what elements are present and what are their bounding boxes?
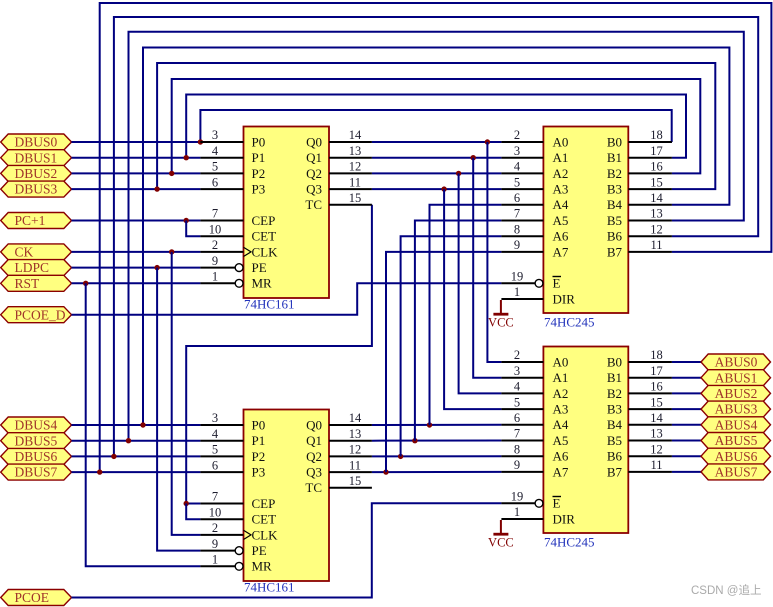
pin 18 B0 of 74HC245 #1 (upper) [607,128,672,149]
svg-text:ABUS1: ABUS1 [715,370,758,385]
svg-text:CLK: CLK [252,244,279,259]
junction DBUS6/B6 [111,454,116,459]
svg-text:MR: MR [252,276,273,291]
svg-text:CLK: CLK [252,527,279,542]
pin 4 A2 of 74HC245 #2 (lower) [501,380,568,401]
wire CK to CLK of 74HC161#2 [172,252,201,535]
wire CK to CLK [72,251,201,253]
svg-text:A4: A4 [553,197,569,212]
pin 5 P2 of 74HC161 #2 (lower) [200,443,265,464]
pin 12 B6 of 74HC245 #2 (lower) [607,442,672,463]
wire B5 feedback loop (74HC245#1 B5 to DBUS5) [129,32,744,441]
svg-text:14: 14 [349,128,362,142]
svg-text:PC+1: PC+1 [15,213,46,228]
pin 15 TC of 74HC161 #2 (lower) [305,474,372,495]
pin 18 B0 of 74HC245 #2 (lower) [607,348,672,369]
junction RST branch [83,281,88,286]
junction CK branch [169,249,174,254]
svg-text:P3: P3 [252,182,266,197]
power symbol VCC on DIR of 74HC245 #1 (upper) [488,300,514,330]
svg-text:A6: A6 [553,229,569,244]
pin 13 B5 of 74HC245 #1 (upper) [607,207,672,228]
pin 2 A0 of 74HC245 #1 (upper) [501,128,568,149]
svg-text:12: 12 [650,442,663,456]
svg-text:7: 7 [514,427,520,441]
pin 2 CLK of 74HC161 #2 (lower) [200,521,278,542]
svg-text:A0: A0 [553,134,569,149]
pin 9 A7 of 74HC245 #1 (upper) [501,238,568,259]
wire B0#2 to ABUS0 [672,361,701,363]
svg-text:A2: A2 [553,166,569,181]
svg-text:P0: P0 [252,417,266,432]
wire B7#2 to ABUS7 [672,471,701,473]
pin 6 P3 of 74HC161 #1 (upper) [200,175,265,196]
svg-text:4: 4 [514,380,521,394]
svg-text:74HC161: 74HC161 [244,297,295,312]
junction DBUS1/B1 [184,155,189,160]
svg-text:Q2: Q2 [306,166,322,181]
svg-text:B1: B1 [607,370,622,385]
pin 13 Q1 of 74HC161 #1 (upper) [306,144,372,165]
wire Q1#2 to A5 of 74HC245#1 [415,221,502,441]
pin 12 Q2 of 74HC161 #1 (upper) [306,160,372,181]
wire Q1#1 to A1 of 74HC245#1 [372,157,502,159]
svg-text:A6: A6 [553,449,569,464]
svg-text:B6: B6 [607,229,623,244]
svg-text:9: 9 [514,458,520,472]
pin 16 B2 of 74HC245 #1 (upper) [607,160,672,181]
port ABUS3 [701,401,771,417]
junction DBUS5/B5 [126,438,131,443]
svg-text:14: 14 [650,191,663,205]
svg-text:8: 8 [514,222,520,236]
svg-text:ABUS3: ABUS3 [715,402,758,417]
svg-text:3: 3 [212,411,218,425]
svg-text:2: 2 [514,348,520,362]
svg-text:11: 11 [349,175,361,189]
IC 74HC245 #2 (lower) body [543,347,628,534]
wire B6#2 to ABUS6 [672,455,701,457]
port PC+1 [1,213,72,229]
junction Q0#1/A0 branch [485,139,490,144]
wire DBUS3 to P3 [72,188,201,190]
wire Q2#2 to A6 of 74HC245#1 [401,236,502,456]
pin 4 A2 of 74HC245 #1 (upper) [501,160,568,181]
junction Q2#2/A6 branch [398,454,403,459]
svg-text:DBUS4: DBUS4 [15,418,58,433]
pin 14 Q0 of 74HC161 #2 (lower) [306,411,372,432]
svg-text:RST: RST [15,276,41,291]
svg-text:B0: B0 [607,134,622,149]
wire Q3#2 to A7 of 74HC245#2 [372,471,502,473]
svg-text:PE: PE [252,543,267,558]
svg-text:A7: A7 [553,464,569,479]
wire B1#2 to ABUS1 [672,377,701,379]
svg-text:B3: B3 [607,182,622,197]
wire PC+1 to CET [186,221,200,237]
pin 16 B2 of 74HC245 #2 (lower) [607,380,672,401]
svg-text:Q1: Q1 [306,150,322,165]
wire RST to MR of 74HC161#2 [86,283,201,566]
svg-text:18: 18 [650,128,663,142]
svg-text:DBUS3: DBUS3 [15,182,58,197]
svg-text:14: 14 [349,411,362,425]
pin 1 MR of 74HC161 #1 (upper) (active low) [200,270,272,291]
svg-text:9: 9 [514,238,520,252]
svg-text:TC: TC [305,197,322,212]
port PCOE_D [1,307,72,323]
svg-text:6: 6 [212,458,218,472]
svg-text:DBUS0: DBUS0 [15,135,58,150]
pin 11 B7 of 74HC245 #1 (upper) [607,238,672,259]
svg-text:CSDN @追上: CSDN @追上 [691,583,761,597]
pin 2 A0 of 74HC245 #2 (lower) [501,348,568,369]
svg-text:VCC: VCC [488,536,514,550]
wire DBUS2 to P2 [72,172,201,174]
wire Q3#1 to A3 of 74HC245#1 [372,188,502,190]
wire B2 feedback loop (74HC245#1 B2 to DBUS2) [172,79,701,173]
wire Q3#2 to A7 of 74HC245#1 [386,252,501,472]
svg-text:VCC: VCC [488,316,514,330]
wire DBUS4 to P0 [72,424,201,426]
junction Q2#1/A2 branch [456,171,461,176]
pin 6 A4 of 74HC245 #2 (lower) [501,411,568,432]
power symbol VCC on DIR of 74HC245 #2 (lower) [488,520,514,550]
wire Q0#2 to A4 of 74HC245#1 [430,205,502,425]
svg-text:11: 11 [650,458,662,472]
svg-text:16: 16 [650,380,663,394]
pin 7 A5 of 74HC245 #2 (lower) [501,427,568,448]
svg-text:DBUS2: DBUS2 [15,166,58,181]
port ABUS2 [701,385,771,401]
svg-text:Q2: Q2 [306,449,322,464]
svg-text:9: 9 [212,537,218,551]
port ABUS1 [701,370,771,386]
svg-text:Q1: Q1 [306,433,322,448]
wire Q2#1 to A2 of 74HC245#2 [459,173,502,393]
svg-text:B1: B1 [607,150,622,165]
svg-text:A7: A7 [553,244,569,259]
wire B2#2 to ABUS2 [672,392,701,394]
svg-text:PCOE: PCOE [15,590,50,605]
junction DBUS7/B7 [97,469,102,474]
pin 11 Q3 of 74HC161 #2 (lower) [306,458,372,479]
pin 14 Q0 of 74HC161 #1 (upper) [306,128,372,149]
port DBUS2 [1,165,72,181]
wire RST to MR [72,282,201,284]
pin 7 A5 of 74HC245 #1 (upper) [501,207,568,228]
svg-text:DBUS7: DBUS7 [15,465,58,480]
svg-text:6: 6 [514,191,520,205]
port DBUS6 [1,448,72,464]
svg-text:74HC245: 74HC245 [544,315,595,330]
svg-text:74HC161: 74HC161 [244,580,295,595]
pin 3 A1 of 74HC245 #2 (lower) [501,364,568,385]
svg-text:12: 12 [349,443,362,457]
wire Q0#2 to A4 of 74HC245#2 [372,424,502,426]
pin 4 P1 of 74HC161 #2 (lower) [200,427,265,448]
svg-text:7: 7 [212,207,218,221]
junction PC+1/CET branch [184,218,189,223]
svg-text:18: 18 [650,348,663,362]
pin 9 PE of 74HC161 #2 (lower) (active low) [200,537,266,558]
svg-text:TC: TC [305,480,322,495]
svg-text:B2: B2 [607,166,622,181]
IC 74HC161 #2 (lower) body [244,410,330,582]
svg-text:4: 4 [212,427,219,441]
junction LDPC branch [154,265,159,270]
svg-text:17: 17 [650,144,663,158]
svg-text:1: 1 [212,270,218,284]
clock triangle CLK of 74HC161 #2 (lower) [244,530,252,539]
svg-text:74HC245: 74HC245 [544,535,595,550]
junction DBUS4/B4 [140,422,145,427]
svg-text:12: 12 [650,222,663,236]
port DBUS1 [1,150,72,166]
svg-text:PE: PE [252,260,267,275]
svg-text:2: 2 [212,521,218,535]
pin 14 B4 of 74HC245 #2 (lower) [607,411,672,432]
svg-text:B0: B0 [607,354,622,369]
junction DBUS0/B0 [198,139,203,144]
svg-text:B7: B7 [607,464,623,479]
pin 1 MR of 74HC161 #2 (lower) (active low) [200,553,272,574]
junction DBUS3/B3 [154,186,159,191]
svg-text:P3: P3 [252,465,266,480]
svg-text:P1: P1 [252,433,266,448]
junction Q1#1/A1 branch [471,155,476,160]
pin 8 A6 of 74HC245 #1 (upper) [501,222,568,243]
svg-text:CEP: CEP [252,213,276,228]
pin 11 B7 of 74HC245 #2 (lower) [607,458,672,479]
svg-text:P2: P2 [252,449,266,464]
pin 9 PE of 74HC161 #1 (upper) (active low) [200,254,266,275]
svg-text:B3: B3 [607,402,622,417]
svg-text:B4: B4 [607,417,623,432]
port ABUS4 [701,417,771,433]
wire Q1#2 to A5 of 74HC245#2 [372,440,502,442]
svg-text:DIR: DIR [553,291,576,306]
pin 4 P1 of 74HC161 #1 (upper) [200,144,265,165]
pin 7 CEP of 74HC161 #2 (lower) [200,490,275,511]
pin 1 DIR of 74HC245 #2 (lower) [501,505,575,526]
pin 19 E of 74HC245 #2 (lower) (active low enable) [501,490,561,511]
svg-text:6: 6 [514,411,520,425]
pin 13 B5 of 74HC245 #2 (lower) [607,427,672,448]
svg-text:4: 4 [514,160,521,174]
port ABUS0 [701,354,771,370]
svg-text:13: 13 [349,427,362,441]
wire DBUS1 to P1 [72,157,201,159]
svg-text:DBUS1: DBUS1 [15,150,58,165]
wire B4#2 to ABUS4 [672,424,701,426]
svg-text:5: 5 [212,160,218,174]
port LDPC [1,260,72,276]
port DBUS0 [1,134,72,150]
svg-text:5: 5 [514,395,520,409]
wire Q3#1 to A3 of 74HC245#2 [444,189,501,409]
pin 12 B6 of 74HC245 #1 (upper) [607,222,672,243]
svg-text:ABUS6: ABUS6 [715,449,758,464]
wire LDPC to PE of 74HC161#2 [157,268,200,551]
svg-text:DIR: DIR [553,511,576,526]
svg-text:A5: A5 [553,433,569,448]
svg-text:A3: A3 [553,402,569,417]
svg-text:P0: P0 [252,134,266,149]
svg-text:CK: CK [15,245,34,260]
wire TC#1 to CEP of 74HC161#2 [186,205,372,504]
svg-text:P1: P1 [252,150,266,165]
wire B6 feedback loop (74HC245#1 B6 to DBUS6) [114,17,758,456]
pin 5 A3 of 74HC245 #1 (upper) [501,175,568,196]
wire Q2#1 to A2 of 74HC245#1 [372,172,502,174]
svg-text:6: 6 [212,175,218,189]
svg-text:Q3: Q3 [306,182,322,197]
svg-text:10: 10 [209,505,222,519]
port DBUS7 [1,464,72,480]
svg-text:A1: A1 [553,370,569,385]
svg-text:A2: A2 [553,386,569,401]
svg-text:A3: A3 [553,182,569,197]
wire PCOE_D to E of 74HC245#1 [72,283,502,314]
svg-text:B5: B5 [607,213,622,228]
pin 10 CET of 74HC161 #1 (upper) [200,222,276,243]
svg-text:A0: A0 [553,354,569,369]
wire Q0#1 to A0 of 74HC245#1 [372,141,502,143]
svg-text:CEP: CEP [252,496,276,511]
svg-text:ABUS5: ABUS5 [715,433,758,448]
svg-text:Q0: Q0 [306,134,322,149]
svg-text:17: 17 [650,364,663,378]
svg-text:P2: P2 [252,166,266,181]
svg-text:A4: A4 [553,417,569,432]
svg-text:8: 8 [514,442,520,456]
svg-text:4: 4 [212,144,219,158]
svg-text:15: 15 [650,395,663,409]
port PCOE [1,590,72,606]
wire DBUS5 to P1 [72,440,201,442]
pin 13 Q1 of 74HC161 #2 (lower) [306,427,372,448]
wire B4 feedback loop (74HC245#1 B4 to DBUS4) [143,48,729,426]
wire B1 feedback loop (74HC245#1 B1 to DBUS1) [186,95,686,158]
IC 74HC245 #1 (upper) body [543,127,628,314]
svg-text:ABUS7: ABUS7 [715,465,758,480]
wire DBUS6 to P2 [72,455,201,457]
svg-text:16: 16 [650,160,663,174]
junction Q1#2/A5 branch [412,438,417,443]
svg-text:LDPC: LDPC [15,260,50,275]
pin 10 CET of 74HC161 #2 (lower) [200,505,276,526]
port DBUS3 [1,181,72,197]
clock triangle CLK of 74HC161 #1 (upper) [244,247,252,256]
pin 15 TC of 74HC161 #1 (upper) [305,191,372,212]
svg-text:7: 7 [212,490,218,504]
svg-text:9: 9 [212,254,218,268]
svg-text:11: 11 [650,238,662,252]
pin 9 A7 of 74HC245 #2 (lower) [501,458,568,479]
port DBUS5 [1,433,72,449]
svg-text:12: 12 [349,160,362,174]
wire TC#1 to CET of 74HC161#2 [186,504,200,520]
pin 12 Q2 of 74HC161 #2 (lower) [306,443,372,464]
wire B0 feedback loop (74HC245#1 B0 to DBUS0) [200,110,672,142]
svg-text:PCOE_D: PCOE_D [15,307,66,322]
svg-text:2: 2 [212,238,218,252]
svg-text:15: 15 [349,191,362,205]
svg-text:CET: CET [252,512,277,527]
pin 7 CEP of 74HC161 #1 (upper) [200,207,275,228]
svg-text:3: 3 [212,128,218,142]
junction Q3#1/A3 branch [441,186,446,191]
svg-text:B6: B6 [607,449,623,464]
svg-text:1: 1 [212,553,218,567]
pin 6 A4 of 74HC245 #1 (upper) [501,191,568,212]
svg-text:13: 13 [650,207,663,221]
svg-text:7: 7 [514,207,520,221]
wire B3#2 to ABUS3 [672,408,701,410]
svg-text:2: 2 [514,128,520,142]
svg-text:19: 19 [511,490,524,504]
pin 5 P2 of 74HC161 #1 (upper) [200,160,265,181]
port ABUS6 [701,448,771,464]
wire Q0#1 to A0 of 74HC245#2 [487,142,501,362]
wire B7 feedback loop (74HC245#1 B7 to DBUS7) [100,3,772,472]
svg-text:15: 15 [650,175,663,189]
wire DBUS7 to P3 [72,471,201,473]
pin 3 P0 of 74HC161 #2 (lower) [200,411,265,432]
svg-text:B7: B7 [607,244,623,259]
port ABUS7 [701,464,771,480]
svg-text:ABUS0: ABUS0 [715,355,758,370]
junction Q3#2/A7 branch [383,469,388,474]
svg-text:10: 10 [209,222,222,236]
wire Q2#2 to A6 of 74HC245#2 [372,455,502,457]
junction Q0#2/A4 branch [427,422,432,427]
pin 3 P0 of 74HC161 #1 (upper) [200,128,265,149]
junction DBUS2/B2 [169,171,174,176]
svg-text:5: 5 [212,443,218,457]
svg-text:B5: B5 [607,433,622,448]
svg-text:5: 5 [514,175,520,189]
port CK [1,244,72,260]
svg-text:14: 14 [650,411,663,425]
svg-text:Q0: Q0 [306,417,322,432]
svg-text:DBUS5: DBUS5 [15,433,58,448]
svg-text:3: 3 [514,364,520,378]
wire B5#2 to ABUS5 [672,440,701,442]
svg-text:DBUS6: DBUS6 [15,449,58,464]
wire PCOE to E of 74HC245#2 [72,503,502,597]
svg-text:B2: B2 [607,386,622,401]
wire B3 feedback loop (74HC245#1 B3 to DBUS3) [157,63,715,189]
pin 19 E of 74HC245 #1 (upper) (active low enable) [501,270,561,291]
svg-text:B4: B4 [607,197,623,212]
junction TC/CET#2 branch [184,501,189,506]
pin 1 DIR of 74HC245 #1 (upper) [501,285,575,306]
pin 17 B1 of 74HC245 #1 (upper) [607,144,672,165]
pin 5 A3 of 74HC245 #2 (lower) [501,395,568,416]
svg-text:A5: A5 [553,213,569,228]
svg-text:ABUS4: ABUS4 [715,417,758,432]
svg-text:CET: CET [252,229,277,244]
pin 15 B3 of 74HC245 #1 (upper) [607,175,672,196]
wire LDPC to PE [72,267,201,269]
pin 15 B3 of 74HC245 #2 (lower) [607,395,672,416]
pin 17 B1 of 74HC245 #2 (lower) [607,364,672,385]
svg-text:3: 3 [514,144,520,158]
svg-text:1: 1 [514,285,520,299]
IC 74HC161 #1 (upper) body [244,127,330,299]
